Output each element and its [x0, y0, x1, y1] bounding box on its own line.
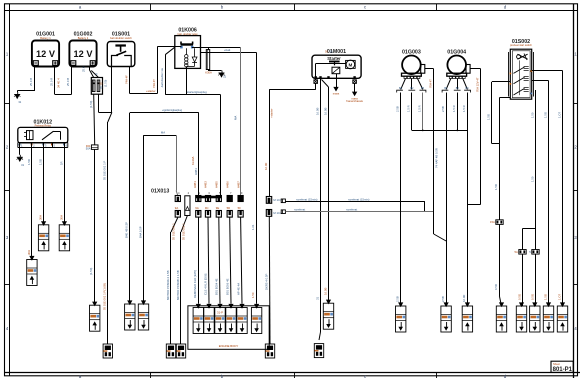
- svg-text:batt doubler switch: batt doubler switch: [110, 36, 132, 40]
- svg-text:B01 E006 4E: B01 E006 4E: [226, 278, 230, 295]
- contact stage 2: [524, 76, 529, 78]
- engine module e1: [193, 304, 203, 334]
- G004 right phase to bus corner, down to module m3: [467, 93, 469, 307]
- diagonal tap -batt doubler: [165, 47, 175, 55]
- generator 01G004: [447, 50, 470, 79]
- svg-text:50A: 50A: [86, 147, 91, 151]
- connector housing bar pins 3-5: [196, 196, 222, 199]
- svg-text:A4B1: A4B1: [194, 168, 198, 175]
- svg-text:(1.50): (1.50): [103, 80, 107, 87]
- svg-text:Battery 1: Battery 1: [40, 36, 51, 40]
- fuse on m5 wire: [515, 250, 527, 255]
- svg-text:55 01E 001 1 P(1.0B): 55 01E 001 1 P(1.0B): [103, 283, 107, 310]
- engine module e3: [215, 304, 225, 334]
- module m5: [516, 302, 526, 332]
- svg-text:MA: MA: [234, 116, 238, 120]
- svg-text:2.5B: 2.5B: [441, 106, 445, 112]
- svg-text:R: R: [95, 73, 99, 75]
- svg-text:preheat start switch: preheat start switch: [510, 44, 532, 47]
- svg-text:50: 50: [325, 50, 328, 54]
- svg-text:M: M: [348, 62, 352, 67]
- svg-text:25.0 B: 25.0 B: [66, 78, 70, 86]
- G003 left phase wire to module m1: [400, 93, 402, 307]
- G004 center phase to bus: [457, 93, 459, 131]
- svg-text:70A 4T: 70A 4T: [429, 79, 433, 88]
- svg-text:74A 4F: 74A 4F: [125, 75, 129, 84]
- contact stage 3: [524, 87, 529, 89]
- terminal t2: [166, 344, 175, 358]
- fuse box 01F? below battery2: [91, 78, 103, 95]
- svg-text:+preheat: +preheat: [346, 208, 357, 212]
- svg-text:AP 4E 4A: AP 4E 4A: [237, 283, 241, 295]
- wire battery2 plus to fuses: [90, 67, 99, 78]
- svg-text:1.50: 1.50: [530, 112, 534, 118]
- G004 left phase wire to module m2: [446, 93, 448, 307]
- wire MA loop: [144, 135, 177, 304]
- wire battery1 plus to battery2 minus: [55, 67, 72, 95]
- svg-text:25.0: 25.0: [82, 66, 86, 72]
- relay 01K012: [18, 119, 68, 147]
- svg-text:74 4AF 4B 0.5R: 74 4AF 4B 0.5R: [435, 148, 439, 168]
- wire K012 pin1 to ground: [19, 148, 21, 155]
- svg-text:K30A: K30A: [205, 71, 212, 75]
- svg-text:1.5 R: 1.5 R: [418, 105, 422, 112]
- G003 splay wires to connector bracket: [401, 79, 423, 90]
- svg-text:mass: mass: [333, 93, 340, 96]
- preheat branch glyph lower: [281, 210, 285, 214]
- battery 01G001: [32, 31, 59, 66]
- labels fuse wires: [82, 66, 108, 275]
- wires pins3-7 down to engine modules: [199, 218, 243, 304]
- module m7: [543, 302, 553, 332]
- svg-text:c: c: [364, 374, 366, 378]
- terminal t4: [265, 344, 274, 358]
- svg-text:30A: 30A: [39, 215, 43, 220]
- wire S001 right to +batt rail: [130, 67, 158, 94]
- wire K006 coil bottom down: [186, 67, 188, 95]
- svg-text:-batt doubler sw: -batt doubler sw: [160, 67, 164, 88]
- svg-text:31: 31: [315, 296, 319, 300]
- svg-text:9A: 9A: [195, 206, 199, 210]
- svg-text:16.0R: 16.0R: [462, 295, 466, 302]
- connector 01X013 pin6: [227, 196, 232, 218]
- module G (starter ground): [323, 300, 333, 330]
- wire labels batteries: [29, 78, 70, 88]
- generator 01G003: [402, 50, 425, 79]
- svg-text:1.50: 1.50: [530, 176, 534, 182]
- svg-text:15A: 15A: [490, 220, 495, 224]
- switch 01S002: [509, 39, 534, 99]
- svg-text:B4A 0.5P: B4A 0.5P: [138, 226, 142, 238]
- wire K012 pin3 to module A: [43, 148, 45, 225]
- svg-text:01X013: 01X013: [151, 189, 169, 195]
- svg-text:1.5O: 1.5O: [39, 158, 43, 165]
- svg-text:1.5O: 1.5O: [487, 113, 491, 120]
- svg-text:31-P: 31-P: [217, 311, 223, 315]
- svg-text:1.O7: 1.O7: [557, 111, 561, 118]
- G003 B+ tab wire: [425, 69, 434, 235]
- G004 connector bracket row: [442, 90, 470, 92]
- starter B+ rail to connector: [269, 89, 315, 196]
- connector 01X013 pin2 (tall): [185, 196, 190, 216]
- starter coil ground arrow: [333, 74, 340, 96]
- wire 256 down to engine module 6: [256, 53, 258, 304]
- svg-text:MOTOR PCM3B 4 1.5B: MOTOR PCM3B 4 1.5B: [176, 270, 180, 300]
- starter B+ bolt: [314, 64, 318, 90]
- svg-text:Sheet: Sheet: [553, 362, 560, 366]
- S002 top right pin wire to module m8: [532, 71, 563, 307]
- svg-text:+starter: +starter: [269, 108, 273, 118]
- wire B+ connector down to terminal t4: [268, 216, 271, 344]
- key glyph: [517, 54, 527, 59]
- svg-text:2.5B: 2.5B: [441, 296, 445, 302]
- preheat wire lower (gray): [285, 211, 433, 213]
- module C: [27, 256, 37, 286]
- starter wire down to module G: [322, 80, 329, 304]
- svg-text:+ignition/glowplug: +ignition/glowplug: [162, 109, 183, 112]
- connector 01X013 pin7: [238, 196, 243, 218]
- svg-text:16.0R: 16.0R: [264, 163, 268, 170]
- svg-text:74A 4T: 74A 4T: [152, 79, 156, 88]
- connector 01X013 pin5: [216, 196, 221, 218]
- module battery feed (mD): [90, 302, 100, 332]
- module m8: [557, 302, 567, 332]
- engine module e5: [237, 304, 247, 334]
- engine module e4: [226, 304, 236, 334]
- svg-text:801-P1: 801-P1: [553, 367, 573, 373]
- svg-text:1.5 R: 1.5 R: [407, 105, 411, 112]
- connector 01X013 pin3: [196, 196, 201, 218]
- svg-text:ENGINE BODY: ENGINE BODY: [219, 344, 239, 348]
- preheat wire upper (black): [285, 202, 425, 212]
- module F: [138, 300, 148, 330]
- svg-text:A4B3: A4B3: [204, 181, 208, 188]
- battery 01G002: [69, 31, 96, 66]
- fuse on m6 wire: [529, 250, 539, 255]
- module A: [38, 221, 48, 251]
- svg-text:+preheat (15min): +preheat (15min): [348, 197, 369, 201]
- rotated labels engine wires: [193, 181, 241, 298]
- svg-text:1.5O: 1.5O: [543, 111, 547, 118]
- contact stage 1: [524, 66, 529, 68]
- svg-text:55 01E 002 1: 55 01E 002 1: [182, 223, 186, 240]
- module m4: [496, 302, 506, 332]
- svg-text:30: 30: [330, 50, 333, 54]
- svg-text:1.O7: 1.O7: [557, 293, 561, 300]
- fuse K006 right: [201, 48, 257, 75]
- starter right bolt: [346, 80, 363, 103]
- svg-text:frame/chassis: frame/chassis: [346, 99, 363, 103]
- switch 01S001: [107, 31, 135, 66]
- G003 connector bracket row: [397, 90, 426, 92]
- G003 right phase wire (gray) to bus: [422, 93, 424, 131]
- wire K006 contact right to starter B+: [192, 47, 241, 49]
- svg-text:2.5B: 2.5B: [396, 296, 400, 302]
- svg-text:9E: 9E: [216, 206, 220, 210]
- svg-text:+starter: +starter: [146, 89, 156, 93]
- svg-text:0.5O: 0.5O: [494, 283, 498, 290]
- module m2: [441, 302, 451, 332]
- svg-text:9C: 9C: [205, 206, 209, 210]
- svg-text:A4B7: A4B7: [236, 181, 240, 188]
- generator bus horizontal: [412, 130, 468, 132]
- engine module e2: [204, 304, 214, 334]
- connector 01X013 pin4: [205, 196, 210, 218]
- title block: [551, 361, 573, 373]
- relay 01K012 pin stubs and numbers: [20, 143, 65, 148]
- svg-text:+batt: +batt: [224, 48, 231, 52]
- svg-text:KL30A: KL30A: [191, 156, 195, 165]
- connector 01X013 pin1: [175, 196, 180, 218]
- svg-text:MA: MA: [161, 131, 165, 135]
- wire pin1 to terminal t2: [171, 218, 178, 345]
- svg-text:1.5O: 1.5O: [27, 158, 31, 165]
- wire pin2 to terminal t3: [181, 216, 188, 345]
- terminal t3: [176, 344, 185, 358]
- svg-text:1.50: 1.50: [251, 292, 255, 298]
- engine module e6: [251, 304, 261, 334]
- gray wire to pin7: [240, 48, 242, 196]
- svg-text:25.0 R: 25.0 R: [50, 78, 54, 86]
- G003 center phase wire to bus: [411, 93, 413, 131]
- svg-text:2.5B: 2.5B: [396, 106, 400, 112]
- svg-text:Starter: Starter: [327, 56, 341, 61]
- svg-text:1.5 R: 1.5 R: [462, 105, 466, 112]
- svg-text:34 4E 4: 34 4E 4: [57, 78, 61, 88]
- wire ignition/glowplug loop: [130, 113, 199, 305]
- svg-text:1R: 1R: [59, 161, 63, 165]
- svg-text:0.5G: 0.5G: [517, 294, 521, 300]
- svg-text:+preheat (15min): +preheat (15min): [296, 197, 317, 201]
- svg-text:B01 E004 4E: B01 E004 4E: [215, 278, 219, 295]
- S002 left pin wire to fuse and module m4: [492, 82, 511, 307]
- starter 01M001: [312, 49, 361, 79]
- fuse on m4 wire: [496, 220, 503, 225]
- svg-text:1.61: 1.61: [251, 224, 255, 230]
- ground 31 (battery): [14, 92, 20, 99]
- pin numbers above: [178, 191, 243, 195]
- wire -batt doubler down: [165, 55, 220, 196]
- S002 bottom right wire to fuse branch: [523, 90, 536, 306]
- svg-text:16.0B: 16.0B: [323, 288, 327, 295]
- svg-text:5D: 5D: [227, 206, 231, 210]
- svg-text:REMOVER KLR [E05]: REMOVER KLR [E05]: [193, 270, 197, 298]
- svg-text:MOTOR PCM3A 4 1.5B: MOTOR PCM3A 4 1.5B: [166, 270, 170, 300]
- pin codes mid: [175, 206, 241, 210]
- svg-text:31: 31: [223, 75, 227, 79]
- svg-text:1.5O: 1.5O: [494, 183, 498, 190]
- svg-text:5F: 5F: [238, 206, 242, 210]
- svg-text:B4E 4B 0.5P: B4E 4B 0.5P: [125, 222, 129, 238]
- relay 01K006: [175, 28, 201, 69]
- svg-text:A4B5: A4B5: [215, 181, 219, 188]
- wire K006 contact left to +batt rail: [157, 47, 181, 94]
- ground 31 (K006): [218, 71, 224, 78]
- svg-text:1.5 R: 1.5 R: [452, 105, 456, 112]
- svg-text:DKR5 4 0.5P: DKR5 4 0.5P: [265, 274, 269, 290]
- wire K012 pin6 to module B: [64, 148, 66, 225]
- module m3: [462, 302, 472, 332]
- S002 mid right pin wire to module m7: [532, 81, 549, 307]
- connector pair on starter B+ wire: [266, 197, 282, 217]
- wire battery1 minus to ground: [17, 67, 34, 93]
- starter wire down to terminal t5: [319, 78, 321, 340]
- svg-text:55 01E 001 1 P: 55 01E 001 1 P: [103, 161, 107, 180]
- terminal t1: [103, 344, 112, 358]
- svg-text:CLE 4 KLR [E06]: CLE 4 KLR [E06]: [204, 273, 208, 295]
- ground 31 (K012): [17, 155, 23, 162]
- svg-text:16.0B: 16.0B: [315, 108, 319, 115]
- svg-text:5A: 5A: [515, 250, 518, 254]
- wire fuse left leg down through F01: [94, 94, 95, 145]
- svg-text:(1.50): (1.50): [89, 268, 93, 275]
- terminal t5: [314, 344, 323, 358]
- preheat branch glyph upper: [281, 199, 285, 203]
- G004 splay wires to connector bracket: [446, 79, 467, 90]
- wire K012 pin2 to module C: [31, 148, 33, 260]
- svg-text:+preheat: +preheat: [294, 208, 305, 212]
- svg-text:9A: 9A: [175, 206, 179, 210]
- wire fuse right leg U-link to S001 left terminal: [99, 67, 112, 113]
- svg-text:16.0B: 16.0B: [323, 108, 327, 115]
- module m6: [530, 302, 540, 332]
- wire S001 left to terminal t1: [108, 112, 112, 344]
- G004 B+ tab wire: [467, 69, 480, 205]
- svg-text:55 01E 001 1: 55 01E 001 1: [172, 223, 176, 240]
- svg-text:1.5O: 1.5O: [543, 293, 547, 300]
- svg-text:(1.50): (1.50): [89, 101, 93, 108]
- engine body box: [188, 306, 269, 350]
- svg-text:25.0 B: 25.0 B: [29, 78, 33, 86]
- svg-text:A4B1: A4B1: [193, 181, 197, 188]
- svg-text:30A: 30A: [27, 250, 31, 255]
- fuse F01: [86, 144, 98, 151]
- B+ feed joins m2 wire: [434, 234, 446, 241]
- module B: [59, 221, 69, 251]
- module m1: [396, 302, 406, 332]
- module E: [125, 300, 135, 330]
- svg-text:Battery 2: Battery 2: [78, 36, 89, 40]
- svg-text:0.5G: 0.5G: [530, 294, 534, 300]
- svg-text:-starter/glowplug: -starter/glowplug: [186, 90, 207, 94]
- svg-text:70A 12V 4T: 70A 12V 4T: [476, 77, 480, 92]
- svg-text:A4B6: A4B6: [225, 181, 229, 188]
- svg-text:30A: 30A: [59, 215, 63, 220]
- svg-text:c: c: [364, 5, 366, 10]
